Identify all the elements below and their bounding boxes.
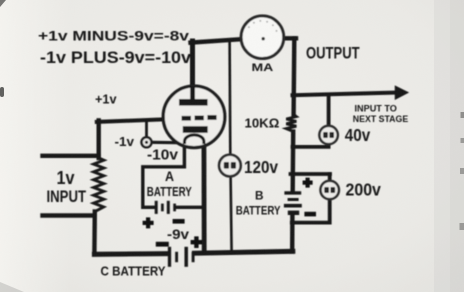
- wire: right filament leg from tube down to bottom wire: [201, 140, 206, 253]
- wire: plate lead vertical from top wire to plate: [190, 41, 195, 101]
- wire: grid lead from input column to tube: [97, 119, 178, 122]
- wire: B+ tee to 200V branch: [291, 172, 331, 176]
- voltmeter icon at 40v: [319, 126, 337, 144]
- wire: right vertical from 10K down to B battery +: [291, 132, 296, 192]
- tube plate lead inside envelope: [190, 86, 195, 100]
- battery A plates: [156, 201, 174, 214]
- label: B battery - polarity: [304, 212, 316, 217]
- label: C battery + polarity: [191, 236, 203, 248]
- wire: 200V meter bottom, corner, return to main vertical: [292, 199, 330, 223]
- tube plate bar: [179, 99, 208, 106]
- wire: 200V meter top stub: [328, 174, 332, 182]
- wire: thin plate-voltage line from top wire to 120V meter: [228, 40, 231, 155]
- wire: input bottom terminal line: [43, 213, 95, 217]
- wire: A battery - lead to right filament leg: [177, 206, 204, 209]
- label: A battery - polarity: [173, 219, 185, 224]
- wire: output arrow line: [293, 93, 398, 96]
- wire: bottom ground wire, C battery to right corner: [195, 251, 293, 253]
- voltmeter icon at 200v: [321, 181, 339, 199]
- label: A battery + polarity: [143, 217, 154, 228]
- label: C battery - polarity: [156, 242, 169, 247]
- wire: stub from grid lead down to -1v test terminal: [145, 122, 148, 138]
- film grain: [0, 0, 1, 1]
- battery C plates: [170, 247, 194, 267]
- right-side darker projection band: [434, 0, 464, 292]
- voltmeter icon at 120v: [219, 155, 241, 177]
- wire: top wire from plate lead to MA meter: [191, 39, 242, 42]
- wire: input column top (grid corner down to top terminal): [96, 120, 100, 158]
- label: B battery + polarity: [303, 178, 313, 188]
- wire: input column below resistor to bottom wire: [92, 212, 97, 253]
- wire: -1v terminal to left filament leg: [152, 141, 185, 145]
- resistor R-load 10K ohm zigzag: [286, 115, 296, 132]
- wire: bottom ground wire, left segment to C battery: [94, 251, 167, 257]
- wire: right vertical from B battery - down to bottom wire: [290, 216, 295, 252]
- MA meter M1: [241, 16, 284, 59]
- resistor R-grid input zigzag: [94, 158, 104, 212]
- wire: 40V branch down from arrow line to meter: [327, 95, 331, 127]
- wire: 40V meter bottom to corner and left to main vertical: [293, 144, 329, 147]
- tube cathode bar: [183, 126, 208, 133]
- wire: thin line from 120V meter down to bottom wire: [231, 177, 232, 253]
- wire: MA meter right to top right corner: [284, 36, 296, 40]
- film artifacts: corner and edge marks: [0, 0, 6, 7]
- tube filament arch: [185, 135, 204, 144]
- grid test terminal (-1v node) circle with dot: [142, 137, 152, 147]
- wire: left filament leg + staircase down-left to A battery +: [143, 141, 185, 208]
- wire: input top terminal line: [43, 154, 99, 158]
- battery B plates: [284, 193, 302, 213]
- tube grid dashes: [182, 116, 191, 121]
- tube V1 envelope circle: [163, 86, 225, 148]
- arrowhead of output line: [396, 87, 408, 99]
- wire: right vertical, top corner down to 10K resistor: [291, 38, 296, 114]
